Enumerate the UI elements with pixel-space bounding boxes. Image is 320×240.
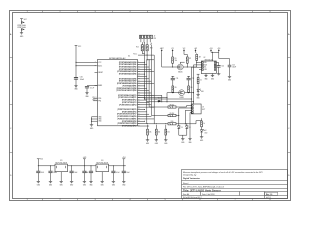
capacitor C27 0.1uF: [85, 86, 94, 89]
IC U2 pin pads: [202, 62, 216, 71]
IC U1 left pin stubs: [95, 72, 98, 85]
LED D1: [197, 89, 204, 95]
junction at VCC/pin wires: [75, 62, 76, 67]
ground below D2: [200, 137, 203, 142]
ground bottom x50.5: [49, 181, 52, 186]
LED D2: [200, 129, 207, 136]
wire +3V1 to C15: [219, 52, 230, 65]
svg-text:PDI_C: PDI_C: [92, 99, 96, 101]
power flag PWR_FLAG 1: [17, 22, 26, 27]
regulator U4 MCP1700: [96, 160, 109, 172]
transistor Q1 SI4435: [177, 64, 183, 73]
wire U4 ground pin: [101, 172, 103, 182]
capacitor C5 bottom: [111, 165, 119, 181]
wire net AIN2 horizontal: [147, 101, 194, 103]
wire U3 ground pin: [60, 172, 62, 182]
svg-text:IC4: IC4: [101, 160, 103, 162]
svg-text:D2: D2: [205, 130, 207, 132]
svg-text:LED: LED: [201, 91, 204, 93]
svg-text:J2: J2: [154, 36, 156, 38]
ground bottom x71.6: [70, 181, 73, 186]
svg-text:100uF: 100uF: [232, 67, 236, 69]
resistor R3 pull-up: [196, 52, 202, 67]
ground GND top-left: [20, 32, 24, 38]
svg-text:PDI_C: PDI_C: [133, 53, 137, 55]
svg-text:GND: GND: [146, 143, 149, 145]
capacitor C2 bottom: [48, 165, 57, 181]
resistor R7 LED: [201, 118, 205, 129]
svg-text:10k: 10k: [175, 60, 178, 62]
title block kicad row: [183, 196, 271, 199]
wire R17 to ground: [155, 135, 157, 140]
ground below D1: [196, 95, 199, 100]
connector J3: [191, 104, 205, 114]
ground below C27: [85, 93, 89, 98]
ground below C15: [228, 76, 231, 81]
title block size date rev row: [183, 192, 278, 196]
svg-text:VC2: VC2: [183, 48, 186, 50]
svg-text:15k: 15k: [149, 131, 152, 133]
ground below R17: [155, 140, 158, 145]
ground below J3: [188, 139, 191, 144]
power flag VCC: [20, 19, 28, 22]
svg-text:C14: C14: [221, 65, 224, 67]
svg-text:SI4435: SI4435: [178, 71, 183, 73]
ground below C14: [217, 74, 220, 76]
svg-text:R8 2k2: R8 2k2: [170, 104, 175, 106]
svg-text:D4: D4: [189, 127, 191, 129]
title block: [182, 170, 288, 199]
ground bottom x84.4: [83, 181, 86, 186]
svg-text:Designed by Jay: Designed by Jay: [183, 175, 196, 177]
wire diode join: [179, 135, 187, 138]
svg-text:GND: GND: [188, 142, 191, 144]
wire R3 to SDA pin: [196, 62, 201, 63]
svg-text:MCP1700-3102E: MCP1700-3102E: [96, 162, 108, 164]
svg-text:U2: U2: [204, 57, 206, 59]
svg-text:Title: JETI LiVOO Vario Sensor: Title: JETI LiVOO Vario Sensor: [183, 188, 221, 192]
svg-text:SI4435: SI4435: [179, 97, 184, 99]
ground bottom x123.8: [122, 181, 125, 186]
svg-text:+3V1: +3V1: [122, 157, 126, 159]
wire AVCC filter to IC pin: [87, 85, 98, 87]
svg-text:100nF: 100nF: [53, 172, 57, 174]
svg-text:R14: R14: [136, 47, 139, 49]
wire C26 to ground: [75, 79, 77, 86]
wire IC GND pins tie: [91, 117, 98, 125]
resistor R16 pulldown: [147, 125, 152, 135]
ground below diodes: [181, 139, 184, 144]
power symbol +3V1 bottom: [122, 157, 126, 166]
svg-text:PDI_D: PDI_D: [92, 97, 96, 99]
op IC U1 ATXMEGA32D4 body: [98, 56, 138, 126]
wire source rail Q1: [162, 66, 197, 67]
svg-text:4k7: 4k7: [199, 56, 201, 58]
svg-text:Date: 6 led 2018: Date: 6 led 2018: [202, 193, 214, 196]
svg-text:CEL1: CEL1: [158, 97, 162, 99]
op IC U2 MS5611 sensor body: [201, 57, 216, 74]
svg-text:R9 2k2: R9 2k2: [170, 113, 175, 115]
svg-text:GND: GND: [164, 143, 167, 145]
wire SDA bus down: [193, 65, 201, 104]
title block comment text: [183, 171, 263, 180]
power flag +3V3 (sensor): [209, 48, 212, 53]
wire R8 to J3: [176, 106, 191, 107]
wire net AIN1 horizontal: [145, 98, 192, 100]
svg-text:File: JETI_LiVOO_Vario_BMP280n: File: JETI_LiVOO_Vario_BMP280nosplit_rev…: [183, 186, 224, 189]
capacitor C6 bottom: [122, 165, 130, 181]
svg-text:GND: GND: [197, 98, 200, 100]
svg-text:Digital Variometer: Digital Variometer: [183, 177, 200, 180]
power symbol VCC bottom: [37, 159, 44, 166]
connector J2 PDI header: [140, 35, 157, 40]
wire net PWM2 horizontal: [138, 97, 168, 98]
svg-text:GND: GND: [204, 78, 207, 80]
wire +BATT down to source rail: [161, 52, 163, 67]
ground below sensor 1: [204, 75, 207, 80]
svg-text:GND: GND: [228, 80, 231, 82]
junction dots on bus: [144, 62, 145, 122]
svg-text:LED: LED: [205, 132, 208, 134]
power flag VC1: [171, 48, 174, 53]
wire net PWM1 horizontal: [138, 95, 163, 102]
svg-text:10uF: 10uF: [74, 172, 77, 174]
svg-text:C15: C15: [232, 64, 235, 66]
diode D3: [177, 116, 182, 136]
svg-text:GND: GND: [60, 185, 63, 187]
wire power rail bottom: [38, 165, 126, 167]
svg-text:KiCad E.D.A. kicad 4.0.7: KiCad E.D.A. kicad 4.0.7: [183, 196, 202, 199]
svg-text:R1: R1: [175, 58, 177, 60]
wire VCC vertical to decoupling: [75, 48, 77, 78]
svg-text:Sheet: /: Sheet: /: [183, 182, 189, 185]
net label AIN2: [158, 100, 161, 102]
capacitor C15 100uF: [228, 64, 237, 76]
capacitor C3 bottom: [70, 165, 78, 181]
capacitor C26 100nF: [74, 76, 84, 80]
resistor R18 pulldown: [165, 125, 170, 135]
svg-text:+3V3: +3V3: [83, 157, 87, 159]
wire VCC to IC pin AVCC: [76, 65, 98, 67]
wire bundle IC right pins to bus: [138, 62, 155, 126]
transistor Q2 SI4435: [179, 90, 185, 99]
svg-text:IC1: IC1: [128, 56, 131, 58]
resistor R17 pulldown: [155, 125, 160, 135]
svg-text:C12: C12: [192, 78, 195, 80]
power tap capacitor C11: [171, 76, 179, 80]
svg-text:Size: A4: Size: A4: [183, 193, 189, 196]
capacitor C14 100nF: [216, 63, 224, 74]
svg-text:GND: GND: [181, 142, 184, 144]
junction dots lower bus: [144, 98, 159, 102]
resistor R4: [197, 78, 202, 90]
ground below R16: [146, 140, 149, 145]
svg-text:C26: C26: [80, 76, 83, 78]
svg-text:D3: D3: [181, 127, 183, 129]
svg-text:10uF: 10uF: [126, 172, 129, 174]
power flag PWR_FLAG 2: [17, 26, 26, 32]
diode D4: [185, 124, 190, 135]
ground below IC left: [90, 125, 94, 130]
svg-text:GND: GND: [89, 185, 92, 187]
svg-text:GND: GND: [200, 140, 203, 142]
power flag +3V1: [217, 48, 220, 53]
svg-text:100nF: 100nF: [80, 79, 84, 81]
power flag +3V3 (pullup): [194, 48, 197, 53]
svg-text:Rev 1.0: Rev 1.0: [266, 194, 272, 196]
wire source rail Q2: [167, 92, 194, 93]
wire +3V3 cap stub: [82, 165, 86, 181]
svg-text:J3: J3: [202, 106, 204, 108]
wire C27 to ground: [86, 88, 88, 93]
svg-text:GND: GND: [155, 143, 158, 145]
ground bottom x91.0: [89, 181, 92, 186]
wire VCC to IC pin VCC: [76, 61, 98, 63]
svg-text:GND: GND: [122, 185, 125, 187]
resistor R5: [172, 80, 177, 93]
resistor R8: [149, 106, 168, 108]
svg-text:IC3: IC3: [60, 160, 62, 162]
ground below R18: [164, 140, 167, 145]
power tap capacitor C12: [187, 76, 195, 80]
net label PDI_DATA on IC pin: [92, 97, 97, 99]
ground bottom x38.3: [37, 181, 40, 186]
wire R18 to ground: [165, 135, 167, 140]
svg-text:Measure atmospheric pressure a: Measure atmospheric pressure and voltage…: [183, 171, 263, 174]
resistor R1: [172, 52, 177, 67]
svg-text:0.1uF: 0.1uF: [90, 87, 94, 89]
resistor R6: [188, 80, 193, 93]
svg-text:GND: GND: [211, 78, 214, 80]
power symbol +3V3 above R4: [197, 74, 200, 77]
wire sensor GND pins down: [206, 74, 213, 76]
svg-text:GND: GND: [49, 185, 52, 187]
svg-text:47uF: 47uF: [41, 172, 44, 174]
regulator U3 MCP1700: [55, 160, 68, 172]
svg-text:+3V1: +3V1: [217, 48, 220, 50]
net label PDI_CLK on IC pin: [92, 99, 97, 101]
power symbol +3V3 bottom: [83, 157, 87, 166]
svg-text:Id: 1/1: Id: 1/1: [266, 197, 271, 199]
svg-text:R2: R2: [189, 58, 191, 60]
svg-text:0.1uF: 0.1uF: [116, 172, 120, 174]
svg-text:GND: GND: [112, 185, 115, 187]
svg-text:GND: GND: [37, 185, 40, 187]
resistor R13: [146, 42, 153, 51]
wire SCL bus down: [191, 67, 201, 104]
svg-text:+3V3: +3V3: [209, 48, 212, 50]
svg-text:+3V3: +3V3: [194, 48, 197, 50]
capacitor C1 bottom: [36, 165, 44, 181]
svg-text:R5: R5: [175, 87, 177, 89]
wire resistor nets jog right: [138, 55, 154, 61]
svg-text:MCP1700-3302E: MCP1700-3302E: [55, 162, 67, 164]
svg-text:15k: 15k: [158, 131, 161, 133]
ground bottom x61.2: [60, 181, 63, 186]
svg-text:GND: GND: [70, 185, 73, 187]
wire R9 to J3: [176, 108, 191, 116]
wire Q1 drain jog: [180, 62, 184, 64]
ground bottom x102.2: [101, 181, 104, 186]
ground bottom x113.4: [112, 181, 115, 186]
svg-text:R10: R10: [171, 121, 174, 123]
svg-text:GND: GND: [83, 185, 86, 187]
wire header pins down: [141, 39, 150, 43]
power symbol VCC (left of IC): [75, 45, 82, 48]
ground below C26: [74, 86, 78, 91]
wire R16 to ground: [147, 135, 149, 140]
svg-text:VC1: VC1: [171, 48, 174, 50]
wire +3V3 into sensor top: [211, 52, 219, 61]
svg-text:C11: C11: [176, 78, 179, 80]
wire rail to J3 pin3: [185, 110, 191, 124]
svg-text:EXT: EXT: [202, 109, 205, 111]
wire bus to rail joint: [153, 122, 155, 125]
svg-text:ATXMEGA32D4-AU: ATXMEGA32D4-AU: [109, 57, 126, 60]
resistor R10 on rail: [168, 121, 176, 125]
power flag VC2: [183, 48, 186, 53]
wire bus verticals: [142, 42, 154, 124]
capacitor C4 bottom: [85, 165, 93, 181]
wire rail2 left drop: [166, 93, 167, 103]
svg-text:GND: GND: [101, 185, 104, 187]
wire CSB to ground: [199, 69, 201, 71]
wire J3 pin4 to ground: [190, 113, 191, 139]
ground below sensor 2: [211, 75, 214, 80]
wire bottom rail: [147, 121, 202, 125]
resistor R9: [151, 115, 168, 117]
resistor R2: [184, 52, 191, 67]
power flag +BATT: [160, 47, 164, 53]
svg-text:15k: 15k: [167, 131, 170, 133]
resistor R14: [141, 42, 152, 51]
